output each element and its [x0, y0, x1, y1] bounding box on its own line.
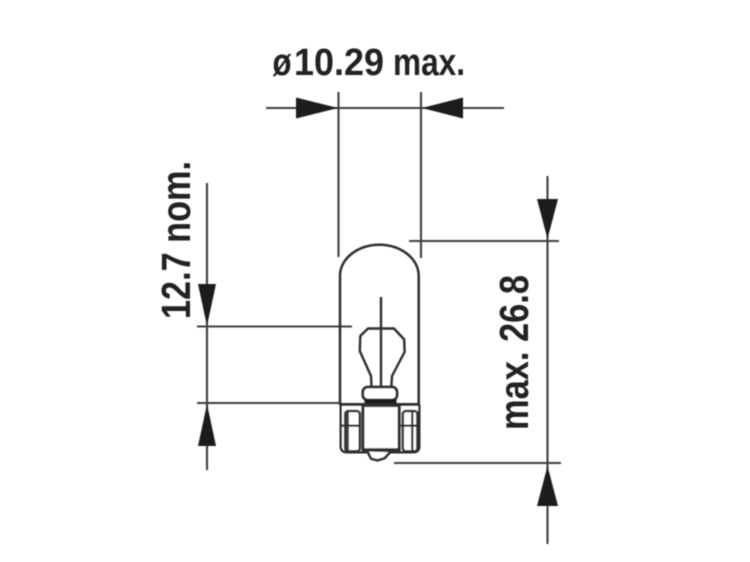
svg-text:max.: max. [393, 42, 465, 84]
svg-text:10.29: 10.29 [294, 42, 384, 84]
extension line base bottom [394, 462, 561, 464]
extension line left (diameter) [337, 92, 339, 257]
glass envelope [340, 245, 419, 405]
base right groove line [401, 425, 419, 427]
base top line [340, 403, 420, 406]
extension line base plane left [197, 402, 341, 404]
base outer housing [341, 405, 420, 453]
svg-text:12.7 nom.: 12.7 nom. [153, 161, 199, 319]
extension line bulb top [409, 240, 559, 242]
base left groove line [341, 425, 360, 427]
right dimension up arrow [537, 466, 558, 506]
glass exhaust tip [368, 452, 391, 461]
right dimension line [546, 176, 548, 544]
left dimension down arrow [198, 284, 216, 326]
extension line filament center [197, 325, 352, 327]
top dimension line [266, 107, 504, 109]
base right wing [403, 411, 418, 451]
left dimension up arrow [198, 404, 216, 446]
svg-text:ø: ø [273, 42, 293, 84]
pinch (black fill) [365, 400, 397, 406]
svg-text:max. 26.8: max. 26.8 [491, 275, 537, 430]
extension line right (diameter) [420, 92, 422, 258]
filament support wire [380, 297, 382, 388]
inner bulb outline [360, 329, 405, 388]
top dimension right arrow [422, 98, 463, 119]
left dimension line [206, 183, 208, 470]
base right wing rib [411, 412, 413, 451]
base left wing rib [347, 412, 349, 451]
wedge plug center [363, 406, 399, 450]
base left wing [345, 411, 360, 451]
pinch seal collar [363, 387, 397, 400]
top dimension left arrow [296, 98, 338, 119]
right dimension down arrow [537, 199, 558, 239]
